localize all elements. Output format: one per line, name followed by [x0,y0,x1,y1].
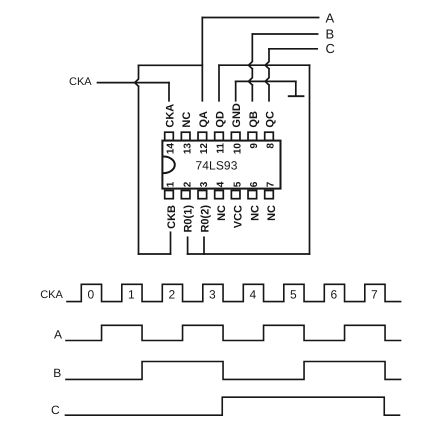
svg-text:9: 9 [249,143,260,149]
svg-text:NC: NC [181,112,193,128]
svg-text:C: C [326,41,335,56]
svg-text:5: 5 [290,287,297,301]
wire R0(2) stub to pin 3 [203,237,205,254]
wire bottom reset horizontal [188,253,310,255]
wire QB vertical (pin 9) with hops [249,34,253,101]
svg-text:3: 3 [209,287,216,301]
svg-text:CKB: CKB [166,205,178,229]
IC pin 5 pad [231,191,240,199]
IC pin 4 pad [215,191,224,199]
svg-text:4: 4 [249,287,256,301]
IC pin 8 pad [265,132,274,140]
ground symbol [289,95,304,97]
IC U1 74LS93 body [162,141,280,189]
waveform output B (QB) [66,362,401,380]
svg-text:2: 2 [182,181,193,187]
IC pin 12 pad [198,132,207,140]
wire QA branch to CKB horizontal [139,64,203,66]
wire CKA drop to pin 14 [168,83,170,101]
waveform output C (QC) [66,397,400,415]
IC pin 1 pad [165,191,174,199]
svg-text:1: 1 [166,181,177,187]
svg-text:14: 14 [166,143,177,155]
waveform output A (QA) [66,325,401,340]
svg-text:NC: NC [249,205,261,221]
svg-text:CKA: CKA [69,76,92,88]
svg-text:NC: NC [266,205,278,221]
svg-text:6: 6 [330,287,337,301]
svg-text:QB: QB [248,111,260,128]
wire QD to reset horizontal [219,64,310,66]
svg-text:NC: NC [216,205,228,221]
wire bottom CKB horizontal [139,253,171,255]
wire QA to A horizontal [202,17,318,19]
IC pin 6 pad [248,191,257,199]
wire QA vertical (pin 12) [201,18,203,101]
wire QB to B horizontal [252,33,317,35]
wire CKB stub to pin 1 [170,232,172,254]
svg-text:A: A [54,328,62,342]
svg-text:3: 3 [199,181,210,187]
wire CKA input horizontal [98,82,170,84]
wire QC vertical (pin 8) with hops [265,49,269,101]
wire right vertical reset [309,65,311,254]
svg-text:GND: GND [231,103,243,127]
IC pin 11 pad [215,132,224,140]
svg-text:R0(2): R0(2) [199,205,211,233]
svg-text:2: 2 [168,287,175,301]
svg-text:4: 4 [216,181,227,187]
IC pin 13 pad [181,132,190,140]
svg-text:VCC: VCC [233,205,245,228]
svg-text:1: 1 [128,287,135,301]
svg-text:6: 6 [249,181,260,187]
svg-text:7: 7 [266,181,277,187]
svg-text:11: 11 [216,143,227,154]
svg-text:B: B [326,26,335,41]
svg-text:A: A [326,10,335,25]
IC pin 7 pad [265,191,274,199]
svg-text:8: 8 [266,143,277,149]
wire QC to C horizontal [269,48,317,50]
svg-text:13: 13 [182,143,193,155]
wire left vertical QA-to-CKB with hop over CKA [135,65,139,254]
svg-text:5: 5 [232,181,243,187]
waveform CKA clock [67,284,401,301]
svg-text:CKA: CKA [165,104,177,128]
IC pin 10 pad [231,132,240,140]
svg-text:QA: QA [198,111,210,128]
svg-text:12: 12 [199,143,210,155]
svg-text:R0(1): R0(1) [183,205,195,233]
svg-text:74LS93: 74LS93 [196,159,238,173]
IC pin 9 pad [248,132,257,140]
svg-text:CKA: CKA [40,289,63,301]
IC pin 14 pad [165,132,174,140]
svg-text:10: 10 [232,143,243,155]
wire GND vertical (pin 10) [235,81,237,100]
IC pin 3 pad [198,191,207,199]
svg-text:QD: QD [215,111,227,128]
wire GND drop to ground [295,81,297,96]
svg-text:0: 0 [87,287,94,301]
svg-text:QC: QC [265,111,277,128]
wire R0(1) stub to pin 2 [187,237,189,254]
IC pin-1 notch [163,157,174,174]
svg-text:B: B [53,366,61,380]
svg-text:7: 7 [371,287,378,301]
svg-text:C: C [51,403,60,417]
IC pin 2 pad [181,191,190,199]
wire QD vertical (pin 11) [218,65,220,101]
wire GND horizontal [236,80,296,82]
